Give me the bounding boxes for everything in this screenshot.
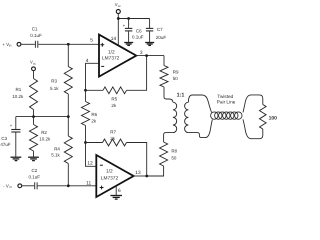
wire pin12 lead [86,143,97,167]
svg-text:14: 14 [111,36,117,42]
wire C1 to pin5 [38,43,99,45]
capacitor C7 20uF [146,19,167,40]
wire R5 right lead to output node [127,56,147,91]
svg-text:0.1uF: 0.1uF [30,33,42,38]
svg-text:C3: C3 [1,136,7,141]
wire C6 to ground [128,31,130,42]
svg-text:Pair Line: Pair Line [217,100,236,105]
terminal +Vin [2,42,21,48]
node output2 [145,175,148,178]
svg-text:R1: R1 [16,87,22,92]
svg-text:0.1uF: 0.1uF [132,35,144,40]
svg-text:C1: C1 [32,27,38,32]
wire output1 to R9 [136,55,164,57]
wire +Vin to C1 [21,43,35,45]
resistor R6 2k [82,102,98,126]
op-amp U1a 1/2 LM7372 [99,35,136,77]
resistor R2 10.2k [30,125,51,152]
transformer T1 primary winding [173,102,177,132]
wire R3 bottom lead [67,94,69,117]
ground C6 [124,43,133,46]
svg-text:20uF: 20uF [156,35,167,40]
svg-text:R6: R6 [91,112,97,117]
wire R9 top lead [163,56,165,66]
transformer T1 secondary winding [185,102,189,132]
wire R6 leads [85,90,87,101]
svg-text:3: 3 [140,50,143,56]
svg-text:2k: 2k [110,136,116,141]
wire C7 to ground [149,31,151,42]
resistor R7 2k [103,130,127,146]
svg-text:12: 12 [87,160,93,166]
wire primary bottom lead [164,133,173,142]
node C6 junction [127,17,130,20]
wire R7 left lead [86,142,103,144]
ground R2 [28,157,39,160]
terminal -Vin [3,183,22,189]
svg-text:R4: R4 [54,147,60,152]
svg-text:50: 50 [173,76,179,81]
wire R4 to pin11 rail [67,164,69,186]
node pin4/R5/R6 tee [84,89,87,92]
svg-text:5: 5 [90,38,93,44]
svg-text:cc: cc [33,61,37,65]
op-amp U1b 1/2 LM7372 [96,155,133,197]
resistor R5 2k [103,87,127,108]
svg-text:in: in [9,185,12,189]
svg-text:- V: - V [3,183,9,188]
wire pin4 lead [86,63,99,90]
ground C3 [11,157,22,160]
svg-text:10.2k: 10.2k [39,136,51,141]
node R1/R2 on rail [32,115,35,118]
node Vcc rail [117,17,120,20]
svg-text:R9: R9 [173,70,179,75]
node R3/R4 on rail [67,115,70,118]
ground C7 [145,43,154,46]
svg-text:LM7372: LM7372 [102,56,120,62]
svg-text:47uF: 47uF [0,142,11,147]
capacitor C2 0.1uF [29,168,41,189]
svg-text:in: in [9,44,12,48]
capacitor C1 [30,27,42,48]
resistor R8 50 [160,142,178,166]
svg-text:Twisted: Twisted [217,94,233,99]
terminal Vcc top [115,2,122,14]
svg-text:cc: cc [118,4,122,8]
wire load bottom lead [243,119,263,138]
svg-text:R7: R7 [110,130,116,135]
svg-text:C2: C2 [32,168,38,173]
svg-text:R2: R2 [41,130,47,135]
wire C3 to ground [15,133,17,157]
svg-text:+: + [10,123,13,128]
wire R1 to bias rail [33,110,35,117]
wire Vcc bypass rail [118,18,149,20]
svg-text:C6: C6 [136,28,142,33]
wire R3 top lead [67,44,69,66]
resistor R3 5.1k [50,67,72,95]
svg-text:2k: 2k [91,118,97,123]
svg-text:C7: C7 [157,27,163,32]
wire secondary top lead [188,95,211,112]
svg-text:5.1k: 5.1k [51,153,60,158]
node R4/pin11 [67,184,70,187]
svg-text:0.1uF: 0.1uF [29,174,41,179]
resistor R1 10.2k [12,79,37,110]
node output1 [145,54,148,57]
wire Vcc down to pin14 [117,14,119,46]
svg-text:+: + [123,23,126,28]
wire C2 to pin11 [38,185,97,187]
svg-text:11: 11 [86,181,91,187]
wire Vcc to R1 [33,71,35,79]
wire R5 left lead [86,89,104,91]
ground pin6 [110,196,122,200]
svg-text:2k: 2k [111,103,117,108]
svg-text:10.2k: 10.2k [12,94,24,99]
wire output2 [134,175,147,177]
wire -Vin to C2 [22,185,35,187]
wire bias rail [16,116,69,118]
svg-text:50: 50 [171,156,177,161]
node R6/R7/pin12 tee [84,141,87,144]
wire R4 top lead [67,117,69,136]
resistor R4 5.1k [51,136,72,164]
capacitor C6 0.1uF [123,19,144,40]
wire R7 right lead down to output2 node [127,143,147,177]
wire R2 top lead [33,117,35,125]
wire R9 bottom lead to transformer [164,87,173,102]
node pin5/R3 junction [67,43,70,46]
wire R2 to ground [33,151,35,157]
wire C3 top lead [15,117,17,129]
svg-text:5.1k: 5.1k [50,86,59,91]
svg-text:4: 4 [86,58,89,64]
terminal Vcc left [30,59,37,70]
svg-text:LM7372: LM7372 [101,176,119,182]
wire pin6 to ground [115,186,117,196]
svg-text:R5: R5 [111,96,117,101]
wire load top lead [243,95,263,113]
svg-text:R3: R3 [51,79,57,84]
svg-text:13: 13 [135,170,141,176]
twisted pair line coil [211,112,242,119]
resistor R9 50 [160,66,179,88]
svg-text:1/2: 1/2 [108,50,115,56]
wire R8 bottom lead to output2 node [147,166,164,176]
svg-text:1:1: 1:1 [177,93,185,99]
svg-text:R8: R8 [171,149,177,154]
svg-text:100: 100 [269,116,278,122]
capacitor C3 47uF [0,123,20,147]
wire secondary bottom lead [188,120,212,138]
svg-text:6: 6 [118,188,121,194]
svg-text:1/2: 1/2 [106,168,113,174]
resistor RL 100 [260,105,278,130]
